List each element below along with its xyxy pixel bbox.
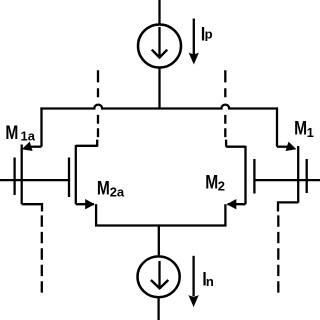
svg-text:p: p [205, 27, 213, 42]
current arrow In [188, 256, 198, 307]
label M2a [97, 177, 125, 200]
svg-text:2a: 2a [110, 185, 125, 200]
transistor M1 [277, 142, 307, 212]
dashed node left (crossing under rail) [96, 70, 99, 147]
svg-text:1: 1 [307, 125, 314, 140]
wire circle to top rail [158, 68, 160, 110]
top rail with crossover hops [40, 105, 278, 109]
wire In to bottom edge [157, 298, 159, 320]
transistor M2 [225, 146, 254, 226]
svg-text:M: M [5, 121, 18, 143]
label In [202, 268, 214, 290]
wire rail to In [158, 226, 160, 258]
svg-text:n: n [206, 274, 214, 289]
label Ip [201, 23, 213, 45]
current source Ip [138, 25, 181, 68]
dashed source lead M1 [277, 215, 279, 293]
svg-text:M: M [97, 177, 110, 199]
label M1 [294, 117, 314, 140]
current source In [138, 256, 180, 297]
wire top feed [158, 0, 160, 25]
transistor M1a [15, 142, 42, 212]
svg-text:2: 2 [218, 179, 225, 194]
svg-text:1a: 1a [21, 128, 36, 143]
label M1a [5, 121, 35, 143]
bottom rail [95, 224, 227, 226]
wire rail to M1a drain [40, 107, 42, 146]
wire rail to M1 drain [276, 107, 278, 146]
svg-text:M: M [205, 171, 218, 193]
label M2 [205, 171, 225, 193]
dashed node right (crossing under rail) [224, 70, 227, 147]
gate rail right (M2 + M1 gates) [254, 179, 320, 181]
svg-text:M: M [294, 117, 307, 139]
dashed source lead M1a [41, 215, 43, 293]
current arrow Ip [189, 19, 199, 65]
transistor M2a [69, 145, 97, 226]
gate rail left (M1a + M2a gates) [0, 179, 69, 181]
